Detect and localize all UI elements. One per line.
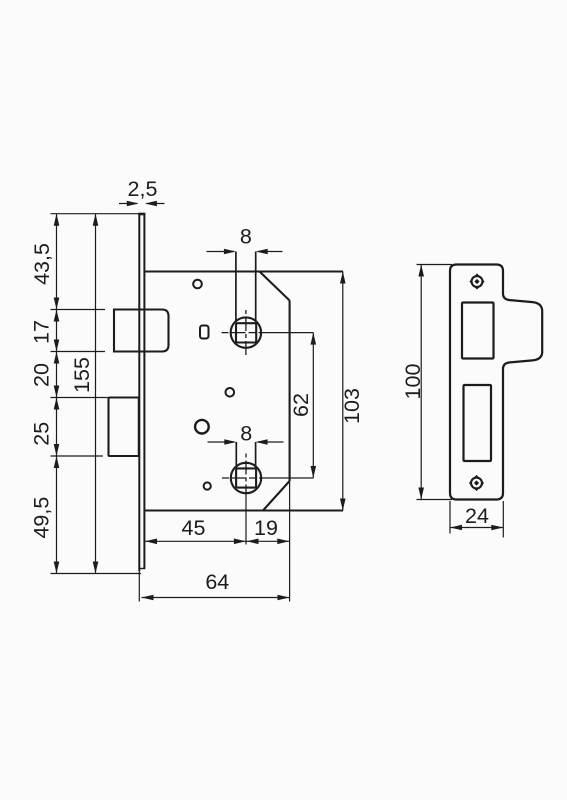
svg-text:45: 45 xyxy=(182,516,206,540)
dimension 64 xyxy=(142,570,290,600)
dimension 20 xyxy=(30,352,60,398)
strike plate screw hole bottom xyxy=(469,475,484,491)
lower spindle centerline horizontal xyxy=(222,477,313,479)
dimension 49,5 xyxy=(30,456,60,574)
bottom extension tick xyxy=(51,573,142,575)
faceplate bottom extension line xyxy=(138,571,140,602)
upper spindle centerline vertical xyxy=(245,310,247,357)
top extension tick at faceplate top xyxy=(51,213,139,215)
faceplate xyxy=(138,214,145,571)
24 dim right extension line xyxy=(502,501,504,538)
lower spindle shaft lines xyxy=(236,442,255,468)
left stacked dimension line xyxy=(56,214,58,574)
svg-text:8: 8 xyxy=(240,225,252,249)
extension tick y=456 xyxy=(51,455,104,457)
upper spindle shaft lines xyxy=(236,252,256,323)
latch bolt xyxy=(114,310,169,352)
upper spindle centerline horizontal xyxy=(222,332,314,334)
dimension 155 xyxy=(70,214,98,574)
extension tick y=397.5 xyxy=(51,397,108,399)
svg-text:155: 155 xyxy=(70,357,94,393)
dimension 2,5 xyxy=(119,177,165,206)
svg-text:19: 19 xyxy=(254,516,278,540)
strike plate deadbolt opening xyxy=(464,385,492,461)
strike plate outline xyxy=(450,265,542,500)
dimension 100 xyxy=(401,265,425,500)
strike plate latch opening xyxy=(462,303,494,359)
body right extension line down to 64 dim xyxy=(289,481,291,602)
small rectangular hole left of upper spindle xyxy=(200,326,209,339)
svg-text:62: 62 xyxy=(289,393,313,417)
svg-text:8: 8 xyxy=(240,422,252,446)
svg-text:49,5: 49,5 xyxy=(30,497,54,539)
dimension 25 xyxy=(30,398,60,457)
large hole xyxy=(195,420,209,434)
extension tick y=351.5 xyxy=(51,351,106,353)
svg-text:2,5: 2,5 xyxy=(128,177,158,201)
strike plate top extension tick xyxy=(417,264,453,266)
dimension 19 xyxy=(247,516,290,544)
lower spindle centerline vertical and extension xyxy=(245,454,247,545)
dimension 24 xyxy=(450,504,503,530)
dimension 103 xyxy=(340,272,364,511)
dimension 8 lower xyxy=(208,422,284,446)
small hole near lower spindle xyxy=(204,482,211,489)
deadbolt xyxy=(109,398,139,457)
lower spindle follower xyxy=(231,463,261,493)
24 dim left extension line xyxy=(449,501,451,534)
lock body outline xyxy=(145,272,344,511)
svg-text:43,5: 43,5 xyxy=(30,243,54,285)
dimension 17 xyxy=(30,310,60,352)
upper spindle follower U xyxy=(231,317,261,347)
middle hole xyxy=(226,388,235,397)
dimension 62 xyxy=(289,333,316,478)
svg-text:25: 25 xyxy=(30,422,54,446)
strike plate screw hole top xyxy=(469,273,484,289)
svg-text:17: 17 xyxy=(30,320,54,344)
dimension 45 xyxy=(145,516,246,544)
dimension 8 upper xyxy=(207,225,283,255)
dimension 43,5 xyxy=(30,214,59,310)
strike plate bottom extension tick xyxy=(417,499,453,501)
svg-text:64: 64 xyxy=(205,570,229,594)
extension tick y=309.5 xyxy=(51,309,106,311)
svg-text:20: 20 xyxy=(30,363,54,387)
screw hole top-left xyxy=(193,280,202,289)
svg-text:24: 24 xyxy=(465,504,489,528)
